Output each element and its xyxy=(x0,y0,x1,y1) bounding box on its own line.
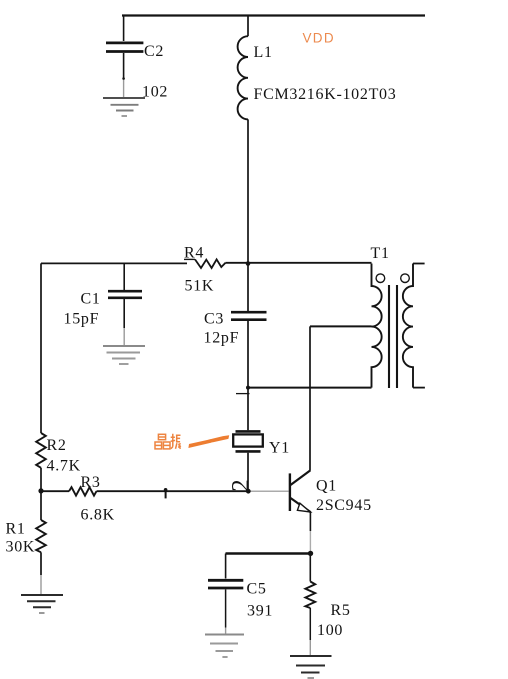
svg-text:C5: C5 xyxy=(247,581,267,598)
svg-text:C2: C2 xyxy=(144,43,164,60)
svg-text:FCM3216K-102T03: FCM3216K-102T03 xyxy=(254,86,397,103)
svg-text:C1: C1 xyxy=(81,291,101,308)
svg-text:R4: R4 xyxy=(184,245,204,262)
svg-text:6.8K: 6.8K xyxy=(81,507,115,524)
svg-text:VDD: VDD xyxy=(303,31,335,46)
svg-text:391: 391 xyxy=(247,603,273,620)
svg-text:15pF: 15pF xyxy=(64,311,100,328)
svg-text:4.7K: 4.7K xyxy=(47,458,81,475)
svg-text:51K: 51K xyxy=(185,278,215,295)
svg-text:12pF: 12pF xyxy=(204,330,240,347)
svg-text:2SC945: 2SC945 xyxy=(316,497,372,514)
svg-text:2: 2 xyxy=(228,479,255,492)
svg-text:R3: R3 xyxy=(81,474,101,491)
svg-text:C3: C3 xyxy=(204,311,224,328)
svg-text:L1: L1 xyxy=(254,44,273,61)
svg-text:R1: R1 xyxy=(6,521,26,538)
svg-text:100: 100 xyxy=(317,622,343,639)
svg-text:R2: R2 xyxy=(47,437,67,454)
svg-text:30K: 30K xyxy=(6,539,36,556)
svg-text:Q1: Q1 xyxy=(316,478,337,495)
svg-text:Y1: Y1 xyxy=(269,440,290,457)
svg-text:R5: R5 xyxy=(331,602,351,619)
svg-text:102: 102 xyxy=(142,84,168,101)
svg-text:T1: T1 xyxy=(371,245,390,262)
